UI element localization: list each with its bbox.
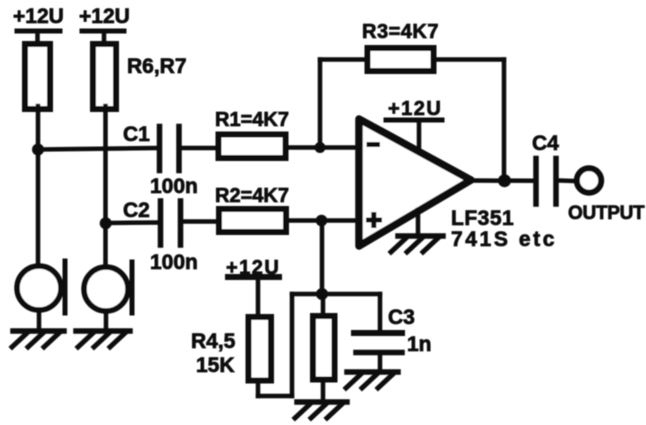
label R2=4K7 bbox=[215, 185, 289, 207]
wire C4 to output terminal bbox=[559, 178, 577, 183]
capacitor C2 bbox=[158, 201, 164, 245]
wire R5 bottom stub bbox=[321, 380, 326, 402]
resistor R5 bbox=[313, 316, 335, 380]
resistor R4 bbox=[249, 317, 272, 381]
+12V rail 4 bar bbox=[228, 274, 279, 280]
label C4 bbox=[532, 132, 559, 155]
node R2 / bias network bbox=[316, 215, 328, 227]
mic2 electrode bar bbox=[130, 262, 135, 313]
svg-text:+12U: +12U bbox=[13, 5, 64, 28]
ground (mic1) bbox=[12, 331, 64, 347]
svg-text:+12U: +12U bbox=[388, 98, 442, 120]
label C1 bbox=[123, 123, 150, 146]
svg-text:R2=4K7: R2=4K7 bbox=[215, 185, 289, 207]
node bias network bbox=[316, 288, 328, 300]
wire bias bottom to R4 bbox=[258, 394, 292, 399]
resistor R1 bbox=[219, 135, 286, 159]
wire R6 bottom to mic1 bbox=[36, 106, 41, 267]
wire op-amp V- stub bbox=[416, 210, 421, 236]
microphone MIC2 bbox=[84, 267, 128, 311]
label LF351 bbox=[451, 207, 514, 230]
mic1 electrode bar bbox=[63, 261, 68, 313]
wire R1 to op-amp inverting input bbox=[287, 145, 359, 150]
label 1n bbox=[407, 333, 432, 356]
wire R5 top stub bbox=[321, 294, 326, 316]
node at right rail / C2 branch bbox=[100, 217, 112, 229]
svg-text:R1=4K7: R1=4K7 bbox=[215, 109, 289, 131]
wire C3 branch down bbox=[378, 294, 383, 333]
+12V rail 1 label bbox=[13, 5, 64, 28]
label 100n (C2) bbox=[150, 251, 198, 274]
svg-text:741S etc: 741S etc bbox=[451, 228, 557, 251]
svg-text:OUTPUT: OUTPUT bbox=[568, 203, 645, 224]
label OUTPUT bbox=[568, 203, 645, 224]
svg-text:100n: 100n bbox=[150, 251, 198, 274]
wire node down to bias network bbox=[320, 221, 325, 295]
svg-text:R4,5: R4,5 bbox=[191, 330, 236, 353]
ground (C3) bbox=[346, 372, 398, 388]
ground (mic2) bbox=[76, 331, 130, 347]
wire R4 bottom bbox=[256, 381, 261, 396]
wire op-amp V+ bbox=[417, 120, 422, 151]
node at left rail / C1 branch bbox=[32, 144, 44, 156]
svg-text:C3: C3 bbox=[388, 306, 415, 329]
wire bias left corner down bbox=[290, 294, 295, 396]
label R3=4K7 bbox=[362, 21, 439, 43]
output terminal bbox=[577, 168, 601, 192]
+12V rail 1 bar bbox=[17, 29, 60, 34]
wire mic2 to ground bbox=[104, 311, 109, 331]
+12V rail 4 label bbox=[226, 257, 280, 279]
wire rail1 to R6 bbox=[35, 31, 40, 44]
label C3 bbox=[388, 306, 415, 329]
+12V rail op-amp bar bbox=[386, 118, 442, 123]
svg-text:LF351: LF351 bbox=[451, 207, 514, 230]
wire mic1 to ground bbox=[37, 310, 42, 331]
+12V rail 2 bar bbox=[82, 29, 124, 34]
label R4,5 bbox=[191, 330, 236, 353]
node R1/R3 bbox=[315, 142, 326, 153]
wire R3 left bbox=[320, 57, 366, 62]
wire C2 to R2 bbox=[183, 219, 219, 224]
resistor R6 bbox=[25, 44, 50, 109]
op-amp non-inverting sign bbox=[366, 218, 382, 223]
wire R3 right bbox=[435, 57, 504, 62]
wire op-amp output bbox=[470, 178, 533, 183]
op-amp inverting sign bbox=[367, 142, 381, 147]
wire rail4 to R4 bbox=[256, 277, 261, 316]
capacitor C3 bbox=[354, 330, 402, 336]
wire R7 bottom to mic2 bbox=[103, 106, 108, 268]
svg-text:100n: 100n bbox=[150, 175, 198, 198]
wire bias network horizontal bbox=[292, 292, 380, 297]
svg-text:R3=4K7: R3=4K7 bbox=[362, 21, 439, 43]
node output / feedback bbox=[498, 174, 511, 187]
wire C3 bottom stub bbox=[378, 353, 383, 373]
+12V rail op-amp label bbox=[388, 98, 442, 120]
wire R3 down to output node bbox=[502, 60, 507, 182]
op-amp U1 bbox=[359, 119, 471, 246]
wire node up to R3 bbox=[318, 60, 323, 148]
ground (R5) bbox=[295, 402, 347, 418]
svg-text:+12U: +12U bbox=[79, 5, 130, 28]
label R1=4K7 bbox=[215, 109, 289, 131]
wire C1 to R1 bbox=[181, 146, 218, 151]
ground (op-amp) bbox=[391, 236, 443, 252]
microphone MIC1 bbox=[17, 266, 61, 310]
resistor R3 bbox=[368, 48, 434, 71]
svg-text:1n: 1n bbox=[407, 333, 432, 356]
resistor R2 bbox=[219, 209, 286, 232]
label C2 bbox=[123, 199, 150, 222]
wire node to C1 bbox=[38, 148, 157, 150]
svg-text:R6,R7: R6,R7 bbox=[127, 55, 187, 78]
svg-text:C4: C4 bbox=[532, 132, 559, 155]
svg-text:C1: C1 bbox=[123, 123, 150, 146]
svg-text:C2: C2 bbox=[123, 199, 150, 222]
capacitor C1 bbox=[157, 127, 163, 171]
label 100n (C1) bbox=[150, 175, 198, 198]
wire rail2 to R7 bbox=[102, 31, 107, 44]
label 741S etc bbox=[451, 228, 557, 251]
capacitor C4 bbox=[533, 159, 539, 205]
label 15K bbox=[196, 354, 235, 377]
wire R2 to op-amp non-inverting input bbox=[287, 218, 359, 223]
+12V rail 2 label bbox=[79, 5, 130, 28]
svg-text:15K: 15K bbox=[196, 354, 235, 377]
wire node to C2 bbox=[106, 220, 159, 225]
label R6,R7 bbox=[127, 55, 187, 78]
resistor R7 bbox=[93, 44, 116, 109]
